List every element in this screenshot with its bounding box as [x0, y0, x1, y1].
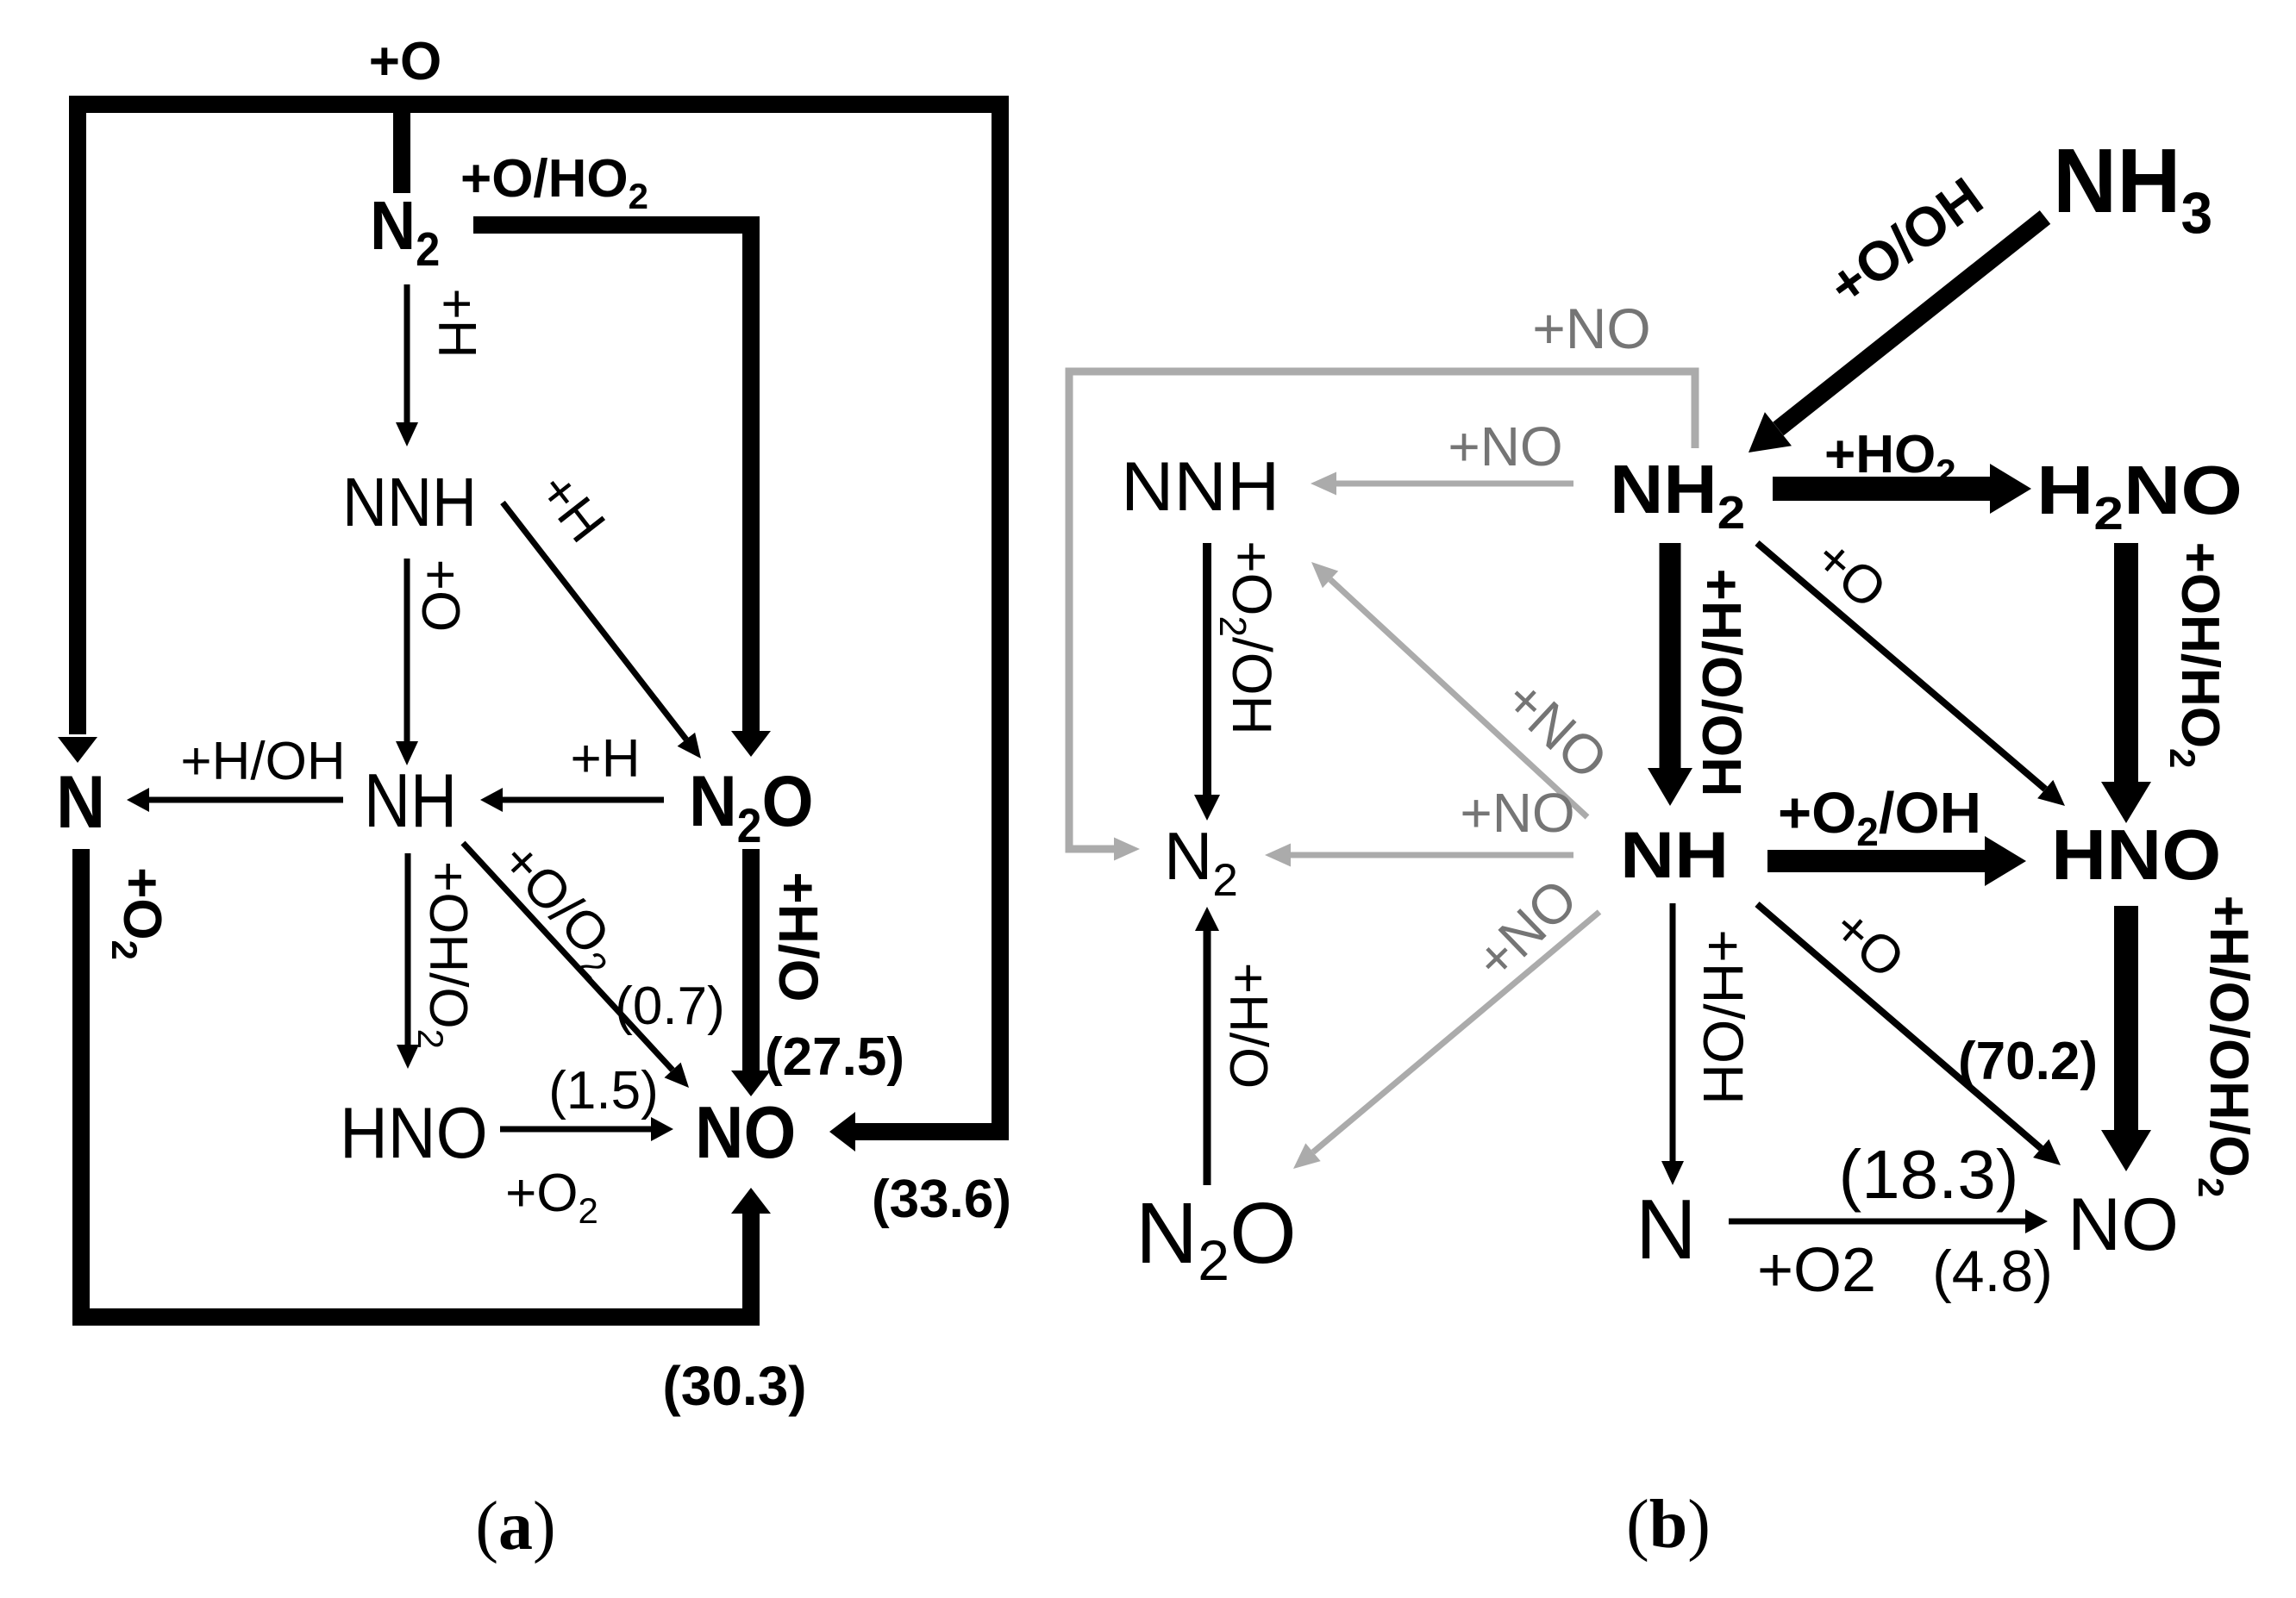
arrow NH2 to HNO diagonal (+O) — [1757, 543, 2045, 790]
svg-text:+O2/OH: +O2/OH — [1778, 781, 1981, 854]
arrow N2 to NNH (+H) — [404, 284, 410, 422]
svg-text:+O/HO2: +O/HO2 — [460, 149, 648, 216]
svg-text:HNO: HNO — [340, 1093, 488, 1174]
arrow NNH to N2O diagonal (+H) — [503, 502, 686, 740]
arrow HNO to NO thick (+H/O/OH/O2) — [2114, 906, 2138, 1130]
arrow NH2 to NH thick (+H/O/OH) — [1660, 543, 1681, 768]
svg-text:+H/O: +H/O — [1218, 963, 1278, 1089]
svg-text:+OH/O2: +OH/O2 — [410, 861, 478, 1049]
arrow HNO to NO (+O2) — [500, 1127, 651, 1133]
svg-text:(b): (b) — [1626, 1487, 1711, 1563]
svg-text:+H/O/OH/O2: +H/O/OH/O2 — [2191, 896, 2259, 1198]
arrow N2 to N2O via +O/HO2 elbow — [473, 225, 751, 731]
svg-text:NO: NO — [695, 1092, 796, 1174]
gray arrow NH to N2 (+NO) — [1291, 852, 1573, 858]
arrow H2NO to HNO thick (+OH/HO2) — [2114, 543, 2138, 782]
arrow N2O to NO thick (+H/O) — [742, 849, 760, 1071]
arrow +O loop: from N2 up, left down to N, and right down to NO (33.6) — [78, 104, 1000, 1132]
svg-text:+OH/HO2: +OH/HO2 — [2162, 542, 2230, 769]
arrow NH2 to H2NO thick (+HO2) — [1773, 477, 1990, 501]
svg-text:+NO: +NO — [1460, 782, 1574, 844]
svg-text:(1.5): (1.5) — [548, 1061, 658, 1120]
svg-text:+H: +H — [427, 289, 486, 359]
svg-text:(0.7): (0.7) — [615, 977, 724, 1036]
svg-text:NH: NH — [1620, 819, 1729, 891]
svg-text:+O2/OH: +O2/OH — [1211, 540, 1283, 734]
arrow NH to HNO thick (+O2/OH) — [1767, 850, 1985, 872]
svg-text:+O: +O — [410, 559, 470, 632]
svg-text:+NO: +NO — [1448, 415, 1562, 478]
svg-text:(70.2): (70.2) — [1958, 1032, 2098, 1091]
black arrow NNH to N2 (+O2/OH) — [1203, 543, 1211, 795]
svg-text:HNO: HNO — [2051, 815, 2221, 896]
arrow N loop down-right-up into NO bottom (30.3) — [81, 849, 751, 1317]
svg-text:N: N — [1636, 1182, 1697, 1277]
arrow NH to NO diagonal (+O/O2) — [463, 843, 673, 1070]
gray loop NH2 to N2 (+NO) — [1069, 371, 1695, 849]
svg-text:N: N — [56, 760, 105, 844]
svg-text:H2NO: H2NO — [2036, 453, 2243, 540]
arrow NH to NO diagonal (+O, 70.2) — [1757, 904, 2041, 1148]
arrow N to NO (+O2, 4.8) — [1729, 1219, 2025, 1225]
svg-text:NNH: NNH — [342, 465, 477, 541]
svg-text:+H/OH: +H/OH — [180, 732, 345, 791]
svg-text:NNH: NNH — [1121, 447, 1279, 526]
svg-text:(a): (a) — [475, 1489, 555, 1564]
gray diagonal NH to N2O (+NO) — [1313, 912, 1599, 1152]
gray arrow NH2 to NNH (+NO) — [1336, 481, 1573, 487]
wire N2 stub up to +O line — [393, 104, 410, 193]
svg-text:+O2: +O2 — [1757, 1236, 1876, 1305]
svg-text:(30.3): (30.3) — [662, 1355, 806, 1417]
black arrow N2O to N2 (+H/O) — [1204, 931, 1211, 1185]
gray diagonal NH up-left (+NO) — [1330, 579, 1587, 817]
svg-text:+H/O/OH: +H/O/OH — [1691, 569, 1753, 797]
arrow NH to N (+H/OH) — [1670, 903, 1676, 1161]
arrow NNH to NH (+O) — [404, 559, 410, 741]
arrow N2O to NH (+H) — [503, 797, 664, 803]
arrow NH3 to NH2 thick diagonal (+O/OH) — [1779, 217, 2046, 429]
svg-text:+H/OH: +H/OH — [1692, 929, 1755, 1105]
svg-text:(27.5): (27.5) — [765, 1027, 904, 1087]
svg-text:+H: +H — [571, 729, 641, 789]
svg-text:(33.6): (33.6) — [872, 1170, 1011, 1229]
svg-text:+NO: +NO — [1532, 297, 1651, 360]
arrow NH to HNO (+OH/O2) — [405, 853, 411, 1045]
svg-text:(18.3): (18.3) — [1839, 1136, 2019, 1213]
svg-text:(4.8): (4.8) — [1932, 1239, 2053, 1304]
svg-text:+O: +O — [369, 32, 441, 91]
svg-text:+H/O: +H/O — [767, 871, 829, 1002]
arrow NH to N (+H/OH) — [149, 797, 343, 803]
svg-text:NH: NH — [364, 758, 457, 843]
svg-text:NO: NO — [2068, 1183, 2179, 1266]
